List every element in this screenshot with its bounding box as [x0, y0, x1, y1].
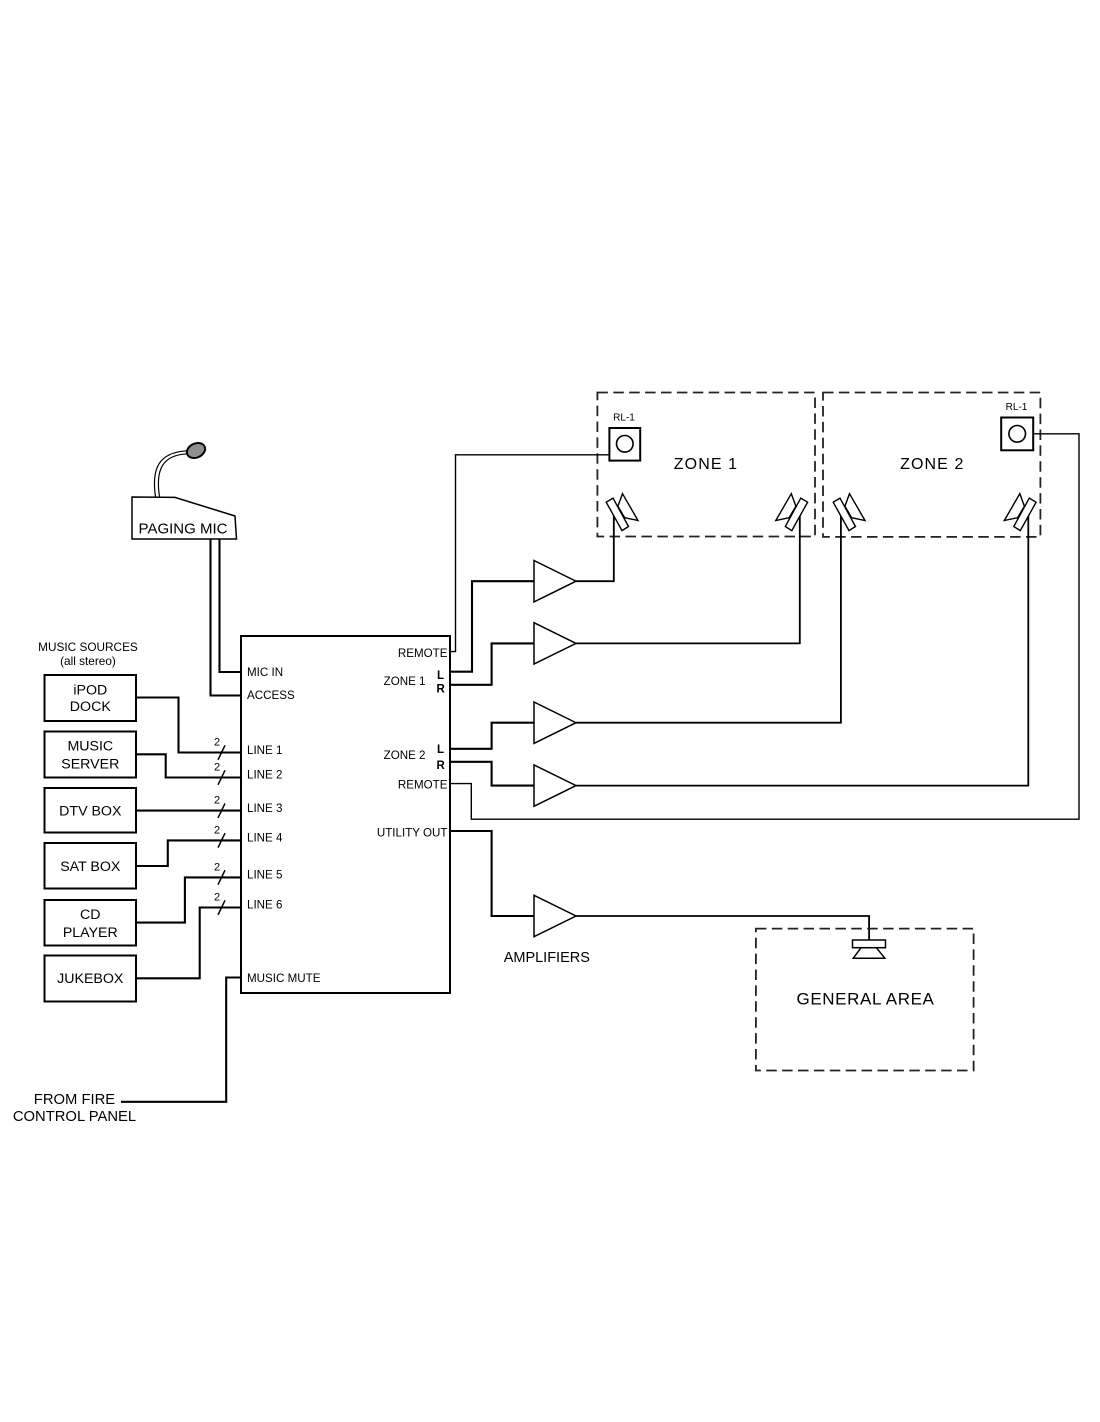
svg-text:REMOTE: REMOTE — [398, 778, 448, 791]
volume control RL-1 zone 2 — [1001, 402, 1033, 450]
svg-text:JUKEBOX: JUKEBOX — [57, 971, 124, 987]
svg-text:ZONE 2: ZONE 2 — [900, 456, 964, 473]
svg-text:L: L — [437, 744, 444, 756]
svg-text:MUSIC: MUSIC — [67, 738, 113, 754]
wire zone1 L to amplifier A1 — [450, 581, 534, 672]
wire amplifier A2 output to speaker SP2 — [576, 515, 800, 643]
svg-text:2: 2 — [214, 761, 220, 773]
paging mic lectern box — [132, 497, 237, 539]
svg-text:R: R — [437, 760, 446, 772]
svg-text:(all stereo): (all stereo) — [60, 654, 116, 668]
wire amplifier A3 output to speaker SP3 — [576, 515, 841, 723]
svg-text:L: L — [437, 670, 444, 682]
svg-text:MUSIC SOURCES: MUSIC SOURCES — [38, 640, 138, 654]
svg-text:RL-1: RL-1 — [613, 412, 635, 423]
ceiling speaker SP5 — [853, 940, 886, 958]
microphone gooseneck — [154, 451, 187, 497]
stereo slash marker LINE 2 — [218, 770, 225, 785]
wire fire control panel to MUSIC MUTE — [121, 978, 241, 1102]
svg-text:MUSIC MUTE: MUSIC MUTE — [247, 972, 321, 985]
svg-text:LINE 3: LINE 3 — [247, 802, 282, 815]
svg-text:DTV BOX: DTV BOX — [59, 803, 122, 819]
wire paging mic to MIC IN — [220, 539, 242, 672]
speaker SP4 zone2 right — [1004, 494, 1036, 531]
wire zone2 L to amplifier A3 — [450, 723, 534, 749]
wire SAT BOX to LINE 4 — [136, 840, 241, 866]
svg-text:LINE 1: LINE 1 — [247, 744, 282, 757]
svg-text:ZONE 1: ZONE 1 — [674, 456, 738, 473]
svg-text:iPOD: iPOD — [73, 682, 107, 698]
wire amplifier A4 output to speaker SP4 — [576, 515, 1028, 786]
svg-text:2: 2 — [214, 736, 220, 748]
svg-text:CD: CD — [80, 907, 101, 923]
svg-text:AMPLIFIERS: AMPLIFIERS — [504, 950, 590, 966]
svg-text:ZONE 1: ZONE 1 — [384, 675, 426, 688]
svg-text:DOCK: DOCK — [70, 699, 112, 715]
svg-text:MIC IN: MIC IN — [247, 666, 283, 679]
svg-text:ACCESS: ACCESS — [247, 689, 295, 702]
wire paging mic to ACCESS — [211, 539, 242, 696]
amplifier A3 — [534, 702, 576, 743]
amplifier A5 — [534, 895, 576, 936]
svg-text:PLAYER: PLAYER — [63, 925, 118, 941]
volume control RL-1 zone 1 — [609, 412, 640, 460]
stereo slash marker LINE 1 — [218, 745, 225, 760]
speaker SP2 zone1 right — [776, 494, 808, 531]
amplifier A2 — [534, 623, 576, 664]
svg-text:GENERAL AREA: GENERAL AREA — [797, 990, 935, 1009]
wire DTV BOX to LINE 3 — [136, 810, 241, 812]
svg-text:2: 2 — [214, 795, 220, 807]
wire remote zone2 (from main unit REMOTE to RL-1 zone2) — [450, 434, 1079, 819]
wire utility out to amplifier A5 — [450, 831, 534, 916]
svg-text:2: 2 — [214, 824, 220, 836]
zone 2 dashed box — [823, 393, 1040, 537]
stereo slash marker LINE 4 — [218, 833, 225, 848]
svg-text:ZONE 2: ZONE 2 — [384, 749, 426, 762]
wire iPOD DOCK to LINE 1 — [136, 698, 241, 753]
svg-text:LINE 2: LINE 2 — [247, 769, 282, 782]
wire zone2 R to amplifier A4 — [450, 762, 534, 786]
svg-text:UTILITY OUT: UTILITY OUT — [377, 826, 448, 839]
main mixer unit box — [241, 636, 450, 993]
source box iPOD DOCK — [45, 675, 137, 721]
microphone capsule — [184, 440, 207, 461]
wire CD PLAYER to LINE 5 — [136, 877, 241, 922]
wire MUSIC SERVER to LINE 2 — [136, 754, 241, 777]
source box JUKEBOX — [45, 956, 137, 1002]
svg-text:RL-1: RL-1 — [1006, 402, 1028, 413]
wire amplifier A5 output to ceiling speaker SP5 — [576, 916, 869, 940]
amplifier A1 — [534, 561, 576, 602]
svg-text:REMOTE: REMOTE — [398, 647, 448, 660]
svg-text:2: 2 — [214, 861, 220, 873]
wire zone1 R to amplifier A2 — [450, 643, 534, 684]
svg-text:LINE 5: LINE 5 — [247, 869, 282, 882]
svg-text:PAGING MIC: PAGING MIC — [139, 520, 228, 537]
svg-text:FROM FIRE: FROM FIRE — [34, 1092, 116, 1108]
wire remote zone1 (from main unit REMOTE to RL-1 zone1) — [450, 455, 609, 652]
speaker SP1 zone1 left — [606, 494, 638, 531]
wire JUKEBOX to LINE 6 — [136, 908, 241, 979]
svg-text:R: R — [437, 684, 446, 696]
source box MUSIC SERVER — [45, 732, 137, 778]
svg-text:LINE 6: LINE 6 — [247, 899, 282, 912]
source box CD PLAYER — [45, 900, 137, 946]
svg-text:2: 2 — [214, 891, 220, 903]
wire amplifier A1 output to speaker SP1 — [576, 516, 614, 582]
svg-text:LINE 4: LINE 4 — [247, 832, 283, 845]
zone 1 dashed box — [597, 393, 815, 537]
svg-text:CONTROL PANEL: CONTROL PANEL — [13, 1109, 136, 1125]
stereo slash marker LINE 3 — [218, 803, 225, 818]
amplifier A4 — [534, 765, 576, 806]
svg-text:SAT BOX: SAT BOX — [60, 859, 121, 875]
speaker SP3 zone2 left — [833, 494, 865, 531]
svg-text:SERVER: SERVER — [61, 757, 119, 773]
general area dashed box — [756, 929, 974, 1071]
source box SAT BOX — [45, 843, 137, 889]
stereo slash marker LINE 5 — [218, 870, 225, 885]
source box DTV BOX — [45, 788, 137, 833]
stereo slash marker LINE 6 — [218, 900, 225, 915]
